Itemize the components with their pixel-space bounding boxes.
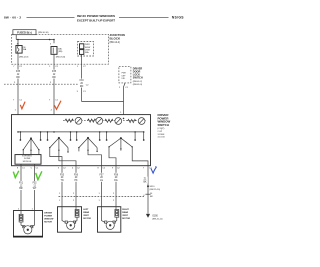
svg-text:REAR: REAR: [122, 211, 128, 214]
wire breaker to JB bottom: [17, 53, 19, 64]
driver motor symbol: [21, 222, 24, 227]
svg-text:(8W-61-2): (8W-61-2): [133, 81, 143, 83]
wire bus to circuit breaker: [17, 40, 19, 46]
switch bus bar: [18, 131, 144, 133]
resistor 1: [65, 119, 73, 122]
splice S310: [147, 185, 149, 187]
module outputs: [20, 164, 22, 166]
svg-text:(8W-15-10): (8W-15-10): [150, 189, 161, 191]
resistor 3: [105, 119, 113, 122]
wire relay to JB bottom: [81, 54, 83, 64]
svg-text:BR: BR: [19, 188, 23, 190]
splice check orange 1: [20, 102, 25, 109]
svg-text:NS/GS: NS/GS: [172, 15, 184, 19]
ground symbol G300: [146, 214, 150, 218]
svg-text:RIGHT: RIGHT: [122, 209, 129, 211]
driver motor pins: [20, 211, 22, 215]
body boundary dashed line: [4, 83, 85, 85]
ground wire: [147, 166, 149, 214]
svg-text:8W-60 POWER WINDOWS: 8W-60 POWER WINDOWS: [77, 14, 115, 18]
svg-text:MOTOR: MOTOR: [83, 218, 91, 220]
svg-text:EXCEPT BUILT-UP EXPORT: EXCEPT BUILT-UP EXPORT: [77, 19, 115, 23]
svg-text:S310: S310: [150, 186, 156, 188]
svg-text:REAR: REAR: [83, 211, 89, 214]
lamp 2: [96, 117, 103, 124]
svg-text:SWITCH: SWITCH: [133, 77, 143, 80]
driver power window switch box: [12, 115, 151, 166]
svg-text:RD: RD: [80, 86, 84, 88]
right stub: [143, 132, 145, 140]
feed stub from label box: [15, 35, 17, 40]
green check 1: [13, 171, 18, 178]
lamp 3: [115, 118, 122, 125]
express down module: [15, 155, 41, 165]
splice check orange 2: [54, 101, 61, 110]
lamp 4: [138, 118, 145, 125]
svg-text:(8W): (8W): [58, 51, 62, 53]
svg-text:MOTOR: MOTOR: [44, 222, 52, 224]
svg-text:PK: PK: [74, 180, 78, 182]
resistor 2: [88, 119, 96, 122]
bus bar in junction block: [16, 39, 54, 41]
relay sub-box dashed: [78, 42, 94, 57]
svg-text:RD: RD: [52, 77, 56, 79]
left vent motor box: [58, 207, 82, 233]
svg-text:(8W-10-16): (8W-10-16): [38, 32, 49, 34]
svg-text:LG: LG: [100, 180, 103, 182]
svg-text:VENT: VENT: [122, 215, 128, 217]
svg-text:(8W-61-3): (8W-61-3): [133, 84, 143, 86]
blue check: [151, 167, 156, 173]
svg-text:8W - 60 - 2: 8W - 60 - 2: [4, 15, 21, 19]
svg-text:2 UP: 2 UP: [158, 131, 163, 133]
lamp 1: [75, 117, 82, 124]
inline connector on ground wire: [145, 193, 150, 195]
right vent motor pins: [101, 207, 103, 218]
resistor 4: [128, 119, 136, 122]
svg-text:4 LOCK: 4 LOCK: [158, 137, 166, 139]
bus junction dots: [20, 131, 22, 133]
green check 2: [36, 171, 42, 179]
switch leg contact dots: [23, 149, 24, 150]
left vent motor symbol: [62, 218, 66, 222]
svg-text:FUSED B(+): FUSED B(+): [17, 31, 32, 35]
wire F35 left drop: [17, 64, 19, 114]
svg-text:DRL: DRL: [122, 78, 126, 80]
module stems: [22, 150, 24, 155]
svg-text:(8W-15-11): (8W-15-11): [152, 219, 163, 221]
svg-text:(C1)(P): (C1)(P): [158, 128, 165, 130]
header rule left: [27, 16, 75, 18]
wire to left vent motor A: [61, 166, 63, 207]
wire to driver motor A: [20, 166, 22, 211]
svg-text:BLOCK: BLOCK: [110, 37, 121, 41]
svg-text:VENT: VENT: [83, 215, 89, 217]
svg-text:(8W-70-8): (8W-70-8): [56, 56, 66, 58]
svg-text:MOTOR: MOTOR: [122, 218, 130, 220]
wire to left vent motor B: [75, 166, 77, 207]
svg-text:WT: WT: [33, 188, 37, 190]
right vent motor box: [98, 207, 121, 233]
fused B+ label box: [13, 30, 36, 35]
switch group 1: [20, 132, 40, 150]
driver window motor box: [14, 211, 43, 238]
wire horizontal to door lock switch: [82, 101, 124, 103]
lamp row dashed link: [63, 120, 147, 122]
wire to right vent motor A: [101, 166, 103, 207]
wire F33 relay drop: [81, 64, 83, 101]
wire to driver motor B: [34, 166, 36, 211]
svg-text:SWITCH: SWITCH: [158, 123, 169, 127]
svg-text:PWR: PWR: [122, 73, 127, 75]
svg-text:DG: DG: [114, 180, 118, 182]
svg-text:G300: G300: [152, 215, 158, 217]
wire F35 mid drop: [53, 64, 55, 114]
svg-text:3 DWN: 3 DWN: [158, 134, 165, 136]
svg-text:BK: BK: [143, 182, 147, 184]
wire to right vent motor B: [115, 166, 117, 207]
wire bus to fuse: [53, 40, 55, 44]
svg-text:TN: TN: [60, 180, 63, 182]
left vent motor pins: [61, 207, 63, 218]
header rule right: [119, 16, 169, 18]
switch group 4: [107, 132, 136, 149]
svg-text:WINDOW: WINDOW: [44, 219, 53, 221]
svg-text:POWER: POWER: [44, 216, 52, 218]
svg-text:LEFT: LEFT: [83, 209, 89, 211]
svg-text:DRIVER: DRIVER: [44, 213, 52, 215]
wire fuse to JB bottom: [53, 54, 55, 64]
lamp feed dot: [123, 118, 125, 120]
switch group 3: [77, 132, 100, 150]
switch group 2: [48, 132, 71, 150]
svg-text:(8W-12-2): (8W-12-2): [110, 42, 121, 44]
driver door lock switch dashed box: [119, 67, 131, 83]
collector wiring: [50, 148, 62, 166]
svg-text:(8W-12-9): (8W-12-9): [19, 57, 29, 59]
svg-text:30A: 30A: [85, 51, 89, 54]
junction block dashed outline: [12, 34, 109, 64]
svg-text:MODULE: MODULE: [23, 161, 32, 163]
wire door lock switch drop: [124, 83, 126, 115]
door boundary dashed line: [59, 196, 145, 198]
svg-text:RD: RD: [16, 77, 20, 79]
svg-text:6: 6: [50, 43, 51, 45]
right vent motor symbol: [102, 218, 106, 222]
